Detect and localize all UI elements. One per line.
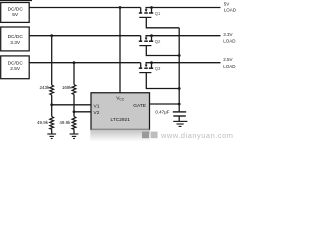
svg-text:2.5V: 2.5V bbox=[223, 57, 232, 62]
transistor Q3 bbox=[139, 63, 153, 73]
wire 2.5V rail left bbox=[29, 62, 141, 64]
svg-text:DC/DC: DC/DC bbox=[8, 34, 24, 40]
resistor 49.9k right bbox=[72, 117, 76, 130]
wire 3.3V rail left bbox=[29, 35, 141, 37]
svg-text:169k: 169k bbox=[62, 85, 73, 90]
svg-text:5V: 5V bbox=[12, 12, 19, 18]
IC U1 LTC2921 body bbox=[91, 93, 150, 130]
svg-text:49.9k: 49.9k bbox=[59, 120, 71, 125]
wire top edge bbox=[0, 0, 32, 2]
transistor Q2 bbox=[139, 36, 153, 46]
resistor 49.9k left bbox=[50, 117, 54, 130]
junction V1 tap bbox=[50, 103, 53, 106]
svg-text:LOAD: LOAD bbox=[223, 39, 236, 44]
DC/DC converter 2.5V box bbox=[1, 56, 30, 79]
wire V1 to LTC2921 bbox=[52, 104, 91, 106]
svg-text:3.3V: 3.3V bbox=[10, 40, 21, 46]
wire 2.5V tap down to 169k bbox=[73, 63, 75, 85]
wire GATE pin to bus bbox=[150, 103, 180, 105]
junction Q3 gate / gate bus bbox=[178, 87, 181, 90]
svg-text:243k: 243k bbox=[40, 85, 51, 90]
wire Q1 gate to bus bbox=[146, 17, 179, 27]
junction Q2 gate / gate bus bbox=[178, 54, 181, 57]
svg-text:2.5V: 2.5V bbox=[10, 66, 21, 72]
svg-text:VCC: VCC bbox=[116, 96, 125, 102]
junction V2 tap bbox=[73, 110, 76, 113]
junction 243k tap on 3.3V rail bbox=[50, 34, 53, 37]
svg-text:Q1: Q1 bbox=[155, 11, 161, 16]
svg-text:3.3V: 3.3V bbox=[223, 32, 232, 37]
svg-text:Q2: Q2 bbox=[155, 39, 161, 44]
ground right divider bbox=[70, 134, 79, 139]
capacitor C1 0.47uF bbox=[173, 112, 186, 122]
svg-text:49.9k: 49.9k bbox=[37, 120, 49, 125]
wire V2 to LTC2921 bbox=[74, 111, 91, 113]
svg-text:LTC2921: LTC2921 bbox=[111, 117, 131, 123]
wire Q2 gate to bus bbox=[146, 46, 179, 56]
svg-text:LOAD: LOAD bbox=[224, 8, 237, 13]
wire Q3 gate to bus bbox=[146, 73, 179, 89]
wire 5V rail right bbox=[145, 7, 220, 9]
svg-text:DC/DC: DC/DC bbox=[8, 6, 24, 12]
transistor Q1 bbox=[139, 8, 153, 18]
resistor 243k bbox=[50, 85, 54, 95]
wire 5V rail left bbox=[29, 7, 141, 9]
svg-text:V1: V1 bbox=[94, 104, 100, 110]
svg-text:0.47µF: 0.47µF bbox=[155, 110, 169, 115]
wire 3.3V tap down to 243k bbox=[51, 36, 53, 85]
svg-text:www.dianyuan.com: www.dianyuan.com bbox=[160, 131, 233, 140]
wire 49.9k right to ground bbox=[73, 129, 75, 134]
wire 169k to 49.9k bbox=[73, 94, 75, 116]
svg-text:5V: 5V bbox=[224, 1, 230, 6]
DC/DC converter 5V box bbox=[1, 3, 30, 23]
junction VCC tap on 5V rail bbox=[119, 6, 122, 9]
wire 49.9k left to ground bbox=[51, 129, 53, 134]
svg-text:Q3: Q3 bbox=[155, 66, 161, 71]
wire 3.3V rail right bbox=[145, 35, 220, 37]
svg-text:GATE: GATE bbox=[133, 103, 146, 109]
IC U1 LTC2921 shadow bbox=[90, 130, 150, 142]
resistor 169k bbox=[72, 85, 76, 95]
wire 2.5V rail right bbox=[145, 62, 220, 64]
ground capacitor bbox=[173, 121, 187, 126]
svg-text:V2: V2 bbox=[94, 110, 100, 116]
svg-text:LOAD: LOAD bbox=[223, 64, 236, 69]
svg-text:DC/DC: DC/DC bbox=[8, 60, 24, 66]
junction GATE wire / bus bbox=[178, 103, 181, 106]
wire VCC tap from 5V rail down to LTC2921 bbox=[119, 8, 121, 93]
junction 169k tap on 2.5V rail bbox=[73, 61, 76, 64]
wire 243k to 49.9k bbox=[51, 95, 53, 117]
watermark logo blocks bbox=[142, 132, 149, 139]
ground left divider bbox=[47, 134, 56, 139]
wire gate bus vertical bbox=[178, 28, 180, 112]
DC/DC converter 3.3V box bbox=[1, 27, 30, 51]
